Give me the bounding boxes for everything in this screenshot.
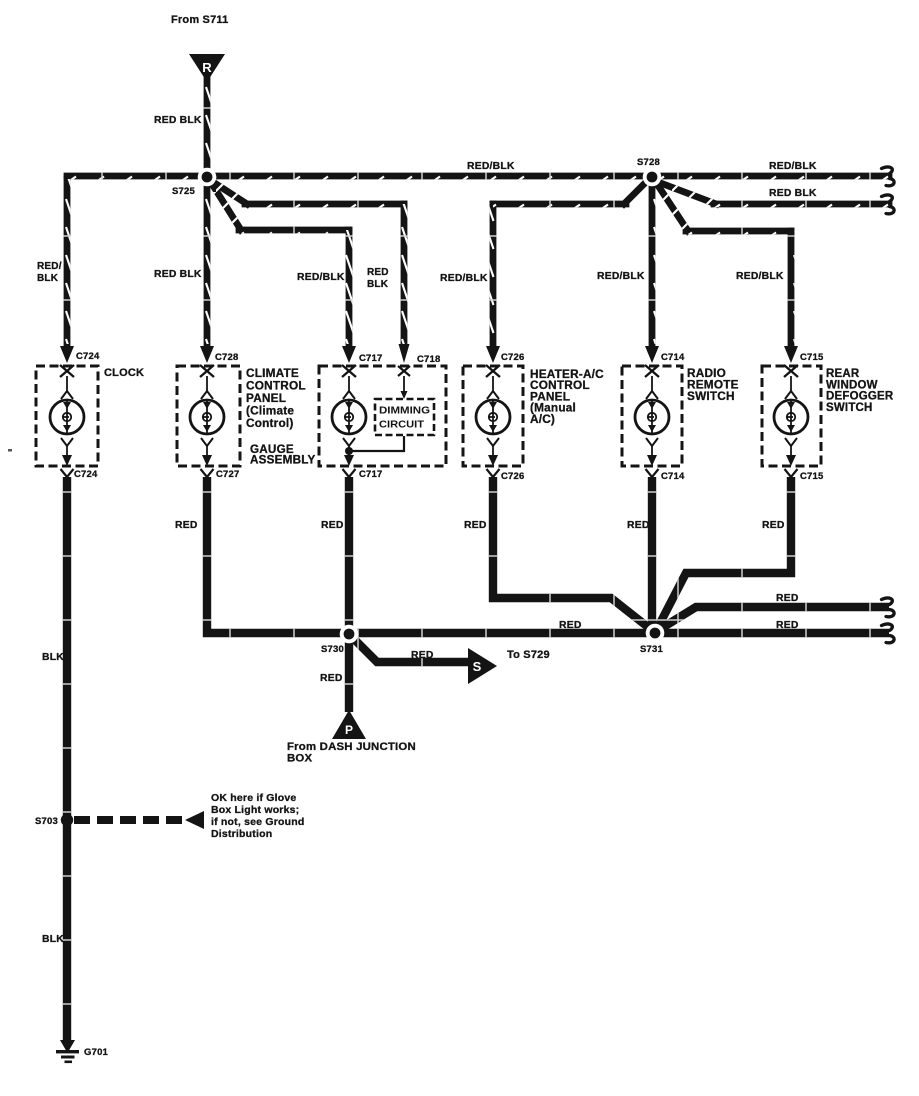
wire RED/BLK top bus: left drop + main horizontal to right edge xyxy=(67,176,889,344)
svg-text:CIRCUIT: CIRCUIT xyxy=(379,419,425,431)
svg-text:CLIMATECONTROLPANEL(ClimateCon: CLIMATECONTROLPANEL(ClimateControl) xyxy=(246,366,306,430)
svg-text:C724: C724 xyxy=(76,351,100,362)
svg-text:RED BLK: RED BLK xyxy=(154,115,202,126)
svg-text:BLK: BLK xyxy=(42,934,64,945)
component HEATER-A/C CONTROL PANEL xyxy=(463,346,523,477)
bulb (illumination lamp) of CLOCK xyxy=(50,376,84,457)
component RADIO REMOTE SWITCH xyxy=(622,346,682,477)
svg-text:RED: RED xyxy=(320,673,343,684)
svg-text:DIMMING: DIMMING xyxy=(379,405,430,417)
node: junction inside gauge assembly linking lamp and dimming circuit xyxy=(345,436,404,455)
svg-text:S731: S731 xyxy=(640,644,664,655)
component CLIMATE CONTROL PANEL xyxy=(177,346,240,477)
svg-text:OK here if GloveBox Light work: OK here if GloveBox Light works;if not, … xyxy=(211,792,304,840)
svg-text:To S729: To S729 xyxy=(507,649,550,661)
component box GAUGE ASSEMBLY xyxy=(319,366,446,466)
off-page connector hook RED lower of S731 xyxy=(882,624,895,643)
svg-text:C715: C715 xyxy=(800,352,824,363)
svg-text:S728: S728 xyxy=(637,157,660,168)
svg-text:C718: C718 xyxy=(417,354,441,365)
bulb (illumination lamp) of HEATER-A/C CONTROL PANEL xyxy=(476,376,510,457)
connector terminal (bottom) at RADIO REMOTE SWITCH xyxy=(646,455,659,477)
svg-text:RED/BLK: RED/BLK xyxy=(297,272,345,283)
stray speck on scan xyxy=(8,449,12,452)
wire RED wire from C726 (heater A/C) down to splice S731 xyxy=(493,477,653,631)
svg-text:G701: G701 xyxy=(84,1047,109,1058)
svg-text:RED BLK: RED BLK xyxy=(769,188,817,199)
svg-text:C726: C726 xyxy=(501,352,525,363)
page connector S (to S729) xyxy=(468,648,497,684)
svg-text:RED: RED xyxy=(776,620,799,631)
svg-text:S703: S703 xyxy=(35,816,58,827)
connector terminal (bottom) at REAR WINDOW DEFOGGER SWITCH xyxy=(785,455,798,477)
connector terminal (bottom) at CLOCK xyxy=(61,455,74,477)
wire RED wire from splice S730 down to connector P xyxy=(345,634,353,712)
svg-text:BLK: BLK xyxy=(42,652,64,663)
wire RED/BLK splice S725 to C718 (gauge assembly dimming) xyxy=(213,182,404,344)
svg-text:C717: C717 xyxy=(359,469,383,480)
svg-text:C714: C714 xyxy=(661,471,685,482)
off-page connector hook RED upper of S731 xyxy=(882,598,895,617)
bulb (illumination lamp) of CLIMATE CONTROL PANEL xyxy=(190,376,224,457)
dimming circuit box U1 inside gauge assembly xyxy=(375,399,434,435)
off-page connector hook RED/BLK upper right xyxy=(882,167,895,186)
connector terminal (top) at RADIO REMOTE SWITCH xyxy=(645,346,659,377)
wire RED wire from C715 (defogger) down to splice S731 xyxy=(656,477,791,631)
wire RED wire from C714 (radio remote) down to splice S731 xyxy=(648,477,656,633)
component box REAR WINDOW DEFOGGER SWITCH xyxy=(762,366,821,466)
svg-text:C727: C727 xyxy=(216,469,240,480)
connector terminal (top) at CLIMATE CONTROL PANEL xyxy=(200,346,214,377)
connector terminal C718 (top) into dimming circuit xyxy=(398,344,410,399)
svg-text:C728: C728 xyxy=(215,352,239,363)
svg-text:RED/BLK: RED/BLK xyxy=(37,261,62,284)
wire RED/BLK splice S725 to C717 (gauge assembly) xyxy=(212,184,349,344)
svg-text:R: R xyxy=(202,60,212,75)
svg-text:S730: S730 xyxy=(321,644,344,655)
svg-text:P: P xyxy=(345,723,353,737)
svg-text:RED: RED xyxy=(175,520,198,531)
svg-text:S: S xyxy=(473,659,482,674)
connector terminal (top) at CLOCK xyxy=(60,346,74,377)
wire RED branch from splice S730 to connector S (To S729) xyxy=(352,637,470,662)
bulb (illumination lamp) of REAR WINDOW DEFOGGER SWITCH xyxy=(774,376,808,457)
svg-text:C726: C726 xyxy=(501,471,525,482)
svg-text:From DASH JUNCTIONBOX: From DASH JUNCTIONBOX xyxy=(287,741,416,765)
junction splice S731 xyxy=(646,624,665,643)
svg-text:RED: RED xyxy=(559,620,582,631)
svg-text:REDBLK: REDBLK xyxy=(367,267,389,290)
component GAUGE ASSEMBLY xyxy=(319,346,446,477)
svg-text:RED: RED xyxy=(776,593,799,604)
connector terminal (bottom) at HEATER-A/C CONTROL PANEL xyxy=(487,455,500,477)
bulb (illumination lamp) of GAUGE ASSEMBLY xyxy=(332,376,366,457)
svg-text:REARWINDOWDEFOGGERSWITCH: REARWINDOWDEFOGGERSWITCH xyxy=(826,368,894,414)
svg-text:RADIOREMOTESWITCH: RADIOREMOTESWITCH xyxy=(687,366,739,403)
connector terminal (top) at GAUGE ASSEMBLY xyxy=(342,346,356,377)
svg-text:RED: RED xyxy=(321,520,344,531)
component box CLOCK xyxy=(36,366,98,466)
svg-text:HEATER-A/CCONTROLPANEL(ManualA: HEATER-A/CCONTROLPANEL(ManualA/C) xyxy=(530,367,604,426)
wire RED/BLK splice S728 branch to C715 (rear defogger switch) xyxy=(657,184,791,344)
component box CLIMATE CONTROL PANEL xyxy=(177,366,240,466)
wire BLK wire from CLOCK C724 down to ground G701 xyxy=(63,477,71,1044)
svg-text:From S711: From S711 xyxy=(171,14,228,26)
svg-text:RED/BLK: RED/BLK xyxy=(736,271,784,282)
svg-text:CLOCK: CLOCK xyxy=(104,367,144,379)
connector terminal (top) at HEATER-A/C CONTROL PANEL xyxy=(486,346,500,377)
svg-text:RED: RED xyxy=(411,650,434,661)
svg-text:RED: RED xyxy=(762,520,785,531)
component CLOCK xyxy=(36,346,98,477)
svg-text:S725: S725 xyxy=(172,186,196,197)
svg-text:RED: RED xyxy=(627,520,650,531)
connector terminal (bottom) at GAUGE ASSEMBLY xyxy=(343,455,356,477)
junction splice S730 xyxy=(340,625,359,644)
wire RED/BLK splice S725 down to C728 (climate control panel) xyxy=(204,186,211,344)
connector terminal (top) at REAR WINDOW DEFOGGER SWITCH xyxy=(784,346,798,377)
wire BLK dashed test lead from splice S703 xyxy=(74,816,184,824)
component box RADIO REMOTE SWITCH xyxy=(622,366,682,466)
bulb (illumination lamp) of RADIO REMOTE SWITCH xyxy=(635,376,669,457)
svg-text:RED: RED xyxy=(464,520,487,531)
svg-text:C717: C717 xyxy=(359,353,383,364)
junction splice S728 xyxy=(643,168,662,187)
svg-text:RED/BLK: RED/BLK xyxy=(769,161,817,172)
svg-text:RED/BLK: RED/BLK xyxy=(467,161,515,172)
component REAR WINDOW DEFOGGER SWITCH xyxy=(762,346,821,477)
wire RED/BLK splice S728 right branch to right edge (upper) xyxy=(658,182,889,204)
wire RED/BLK from connector R down to splice S725 xyxy=(204,76,211,168)
wire RED/BLK splice S728 left branch to C726 (heater A/C panel) xyxy=(493,182,646,344)
page connector P (from dash junction box) xyxy=(332,710,366,739)
wire RED wire from C727 down and bottom bus through S730 to S731 and right edge xyxy=(207,477,889,633)
page connector R (from S711) xyxy=(189,54,225,82)
svg-text:RED BLK: RED BLK xyxy=(154,269,202,280)
component box HEATER-A/C CONTROL PANEL xyxy=(463,366,523,466)
wire RED wire from splice S731 up-right to right edge xyxy=(657,607,889,631)
svg-text:RED/BLK: RED/BLK xyxy=(597,271,645,282)
wire RED wire from C717 (gauge assembly) down to splice S730 xyxy=(345,477,353,633)
wire RED/BLK splice S728 down to C714 (radio remote switch) xyxy=(649,186,656,344)
off-page connector hook RED BLK second right xyxy=(882,195,895,214)
junction splice S703 xyxy=(61,814,73,826)
junction splice S725 xyxy=(198,168,217,187)
arrow head of S703 dashed lead xyxy=(185,811,204,829)
svg-text:C714: C714 xyxy=(661,352,685,363)
svg-text:C715: C715 xyxy=(800,471,824,482)
svg-text:RED/BLK: RED/BLK xyxy=(440,273,488,284)
connector terminal (bottom) at CLIMATE CONTROL PANEL xyxy=(201,455,214,477)
ground G701 xyxy=(56,1040,79,1063)
svg-text:C724: C724 xyxy=(74,469,98,480)
svg-text:GAUGEASSEMBLY: GAUGEASSEMBLY xyxy=(250,443,315,467)
